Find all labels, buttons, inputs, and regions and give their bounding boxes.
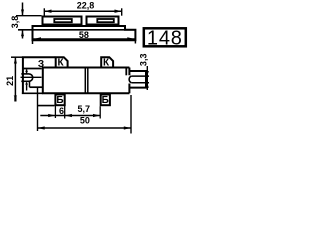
svg-text:148: 148 <box>147 27 183 49</box>
svg-text:22,8: 22,8 <box>77 1 95 11</box>
svg-text:К: К <box>58 58 65 69</box>
svg-text:21: 21 <box>5 76 15 86</box>
svg-text:5,7: 5,7 <box>77 104 90 114</box>
svg-text:50: 50 <box>80 116 90 126</box>
svg-text:6: 6 <box>59 106 64 116</box>
svg-text:Б: Б <box>102 95 109 106</box>
svg-text:Б: Б <box>56 95 63 106</box>
svg-text:58: 58 <box>79 30 89 40</box>
svg-text:3,3: 3,3 <box>139 54 149 67</box>
svg-text:З: З <box>38 59 44 70</box>
svg-text:3,8: 3,8 <box>10 16 20 29</box>
svg-text:К: К <box>103 58 110 69</box>
